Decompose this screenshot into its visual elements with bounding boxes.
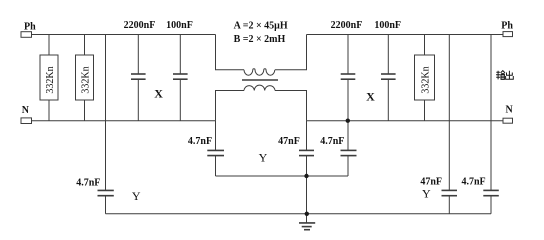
svg-text:N: N [22,105,30,116]
inductor A top winding [244,69,275,75]
capacitor 4.7nF mid-left plates [207,149,224,151]
capacitor 4.7nF mid-right leads [347,121,349,151]
wire choke top-left step [216,35,245,70]
wire vertical left branch to Y cap [105,35,107,191]
capacitor 2200nF left leads [137,35,139,75]
wire top rail left [32,34,216,36]
svg-text:X: X [366,89,375,103]
inductor B bottom winding [244,85,275,90]
capacitor 100nF left leads [179,35,181,75]
svg-text:100nF: 100nF [374,20,401,31]
resistor R2 332Kn body [76,55,94,100]
terminal N left [21,118,32,124]
capacitor 100nF right leads [387,35,389,75]
wire choke bottom-right step [275,91,307,121]
svg-text:Y: Y [422,186,431,200]
capacitor 2200nF right leads [347,35,349,75]
capacitor 47nF bottom-right plates [442,189,458,191]
svg-text:Y: Y [259,150,268,164]
svg-text:2200nF: 2200nF [124,20,156,31]
svg-text:332Kn: 332Kn [421,66,432,93]
wire choke bottom-left step [216,91,245,121]
capacitor 47nF mid plates [299,149,314,151]
svg-text:100nF: 100nF [166,20,193,31]
resistor R2 332Kn leads [84,35,86,56]
svg-text:4.7nF: 4.7nF [188,136,212,147]
capacitor 2200nF left plates [131,73,146,75]
svg-text:B =2 × 2mH: B =2 × 2mH [234,34,286,45]
svg-text:4.7nF: 4.7nF [76,178,100,189]
terminal Ph right [503,32,513,37]
junction dot upper Y bus [304,174,308,178]
capacitor 4.7nF bottom-right plates [483,189,499,191]
wire choke top-right step [275,35,307,70]
capacitor 100nF right plates [381,73,396,75]
wire ground drop [306,176,308,223]
resistor R3 332Kn leads [424,35,426,56]
wire top rail right [307,34,504,36]
capacitor 47nF bottom-right leads [448,35,450,191]
capacitor 100nF left plates [173,73,188,75]
terminal Ph left [21,32,32,38]
svg-text:2200nF: 2200nF [331,20,363,31]
choke core line [242,79,278,81]
label output (Chinese) drawn as strokes [496,71,513,80]
wire N rail left [32,120,216,122]
resistor R1 332Kn body [40,55,58,100]
junction dot N / 4.7nF right [346,119,350,123]
svg-text:Y: Y [132,189,141,203]
capacitor 2200nF right plates [341,73,356,75]
capacitor 47nF mid leads [306,121,308,151]
svg-text:332Kn: 332Kn [45,66,56,93]
wire bottom ground bus [106,213,492,215]
terminal N right [503,118,513,123]
resistor R3 332Kn body [415,55,435,100]
capacitor 4.7nF bottom-right leads [490,35,492,191]
svg-text:47nF: 47nF [278,136,300,147]
junction dot ground bus [305,212,309,216]
capacitor 4.7nF bottom-left plates [98,189,114,191]
svg-text:X: X [154,87,163,101]
svg-text:4.7nF: 4.7nF [320,136,344,147]
svg-text:4.7nF: 4.7nF [462,176,486,187]
svg-text:A =2 × 45μH: A =2 × 45μH [234,21,288,32]
svg-text:Ph: Ph [24,21,36,32]
svg-text:N: N [506,104,514,115]
svg-text:Ph: Ph [501,20,513,31]
wire N rail right [307,120,504,122]
wire bottom-left cap to ground bus [105,196,107,214]
capacitor 4.7nF mid-left leads [215,121,217,151]
wire upper Y bus [216,175,349,177]
resistor R1 332Kn leads [48,35,50,56]
svg-text:332Kn: 332Kn [81,66,92,93]
ground symbol [299,222,315,224]
capacitor 4.7nF mid-right plates [341,149,357,151]
